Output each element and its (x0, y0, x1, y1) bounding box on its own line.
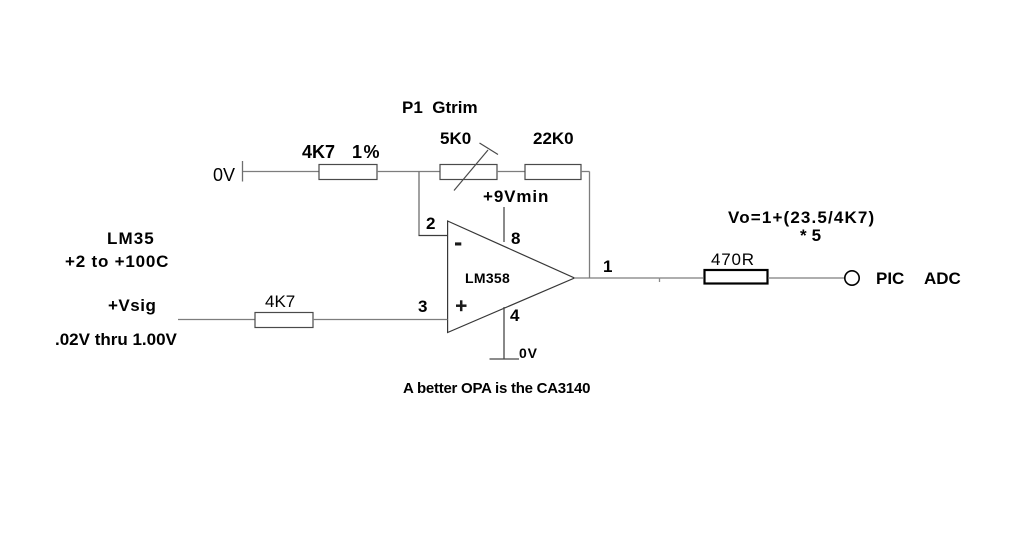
note A better OPA is the CA3140 (403, 381, 590, 396)
label ADC (924, 270, 961, 287)
label PIC ADC (876, 270, 904, 287)
pin number 8 (511, 230, 520, 247)
label LM358 inside op-amp (465, 271, 510, 285)
node 0V input terminal tick (242, 161, 244, 182)
label +Vsig (108, 297, 156, 314)
resistor R1 4K7 1% (319, 165, 377, 180)
label P1 Gtrim (402, 99, 478, 116)
wire +Vsig input (178, 319, 255, 321)
pin number 1 (603, 258, 612, 275)
wire R3 to pin 3 (313, 319, 448, 321)
op-amp non-inverting input plus sign (456, 304, 467, 307)
wire R2 to feedback corner (581, 171, 590, 173)
label 4K7 1% for R1 (302, 144, 335, 161)
potentiometer P1 5K0 body (440, 165, 497, 180)
pin number 3 (418, 298, 427, 315)
resistor R4 470R (705, 270, 768, 284)
label LM35 (107, 230, 155, 247)
resistor R2 22K0 (525, 165, 581, 180)
wire pin 2 horizontal (419, 235, 448, 237)
label 0V left (213, 166, 235, 184)
wire R1 to P1 (377, 171, 440, 173)
terminal circle PIC ADC (845, 271, 859, 285)
label 22K0 for R2 (533, 130, 574, 147)
label 5K0 for P1 (440, 130, 471, 147)
wire 0V to R1 (243, 171, 319, 173)
potentiometer P1 wiper diagonal (454, 150, 488, 191)
op-amp inverting input minus sign (455, 242, 461, 245)
ground tick pin 4 0V (490, 358, 520, 360)
wire output pin 1 (574, 277, 703, 279)
resistor R3 4K7 input (255, 313, 313, 328)
pin number 2 (426, 215, 435, 232)
wire pin 4 V- (503, 307, 505, 359)
label 1% tolerance for R1 (352, 144, 381, 161)
wire pin 8 V+ (503, 207, 505, 242)
potentiometer P1 wiper T-bar (480, 143, 499, 155)
wire feedback vertical to output (589, 172, 591, 279)
label Vo formula (728, 209, 875, 226)
junction tick on output wire (659, 278, 661, 283)
wire R4 to terminal (768, 277, 845, 279)
label .02V thru 1.00V (55, 331, 177, 348)
label +9Vmin pin 8 supply (483, 188, 549, 205)
label 0V pin 4 (519, 346, 538, 360)
label 4K7 for R3 (265, 293, 295, 310)
pin number 4 (510, 307, 519, 324)
label 470R for R4 (711, 251, 755, 268)
op-amp U1 LM358 triangle (448, 221, 575, 333)
wire P1 to R2 (497, 171, 525, 173)
label +2 to +100C (65, 253, 169, 270)
label *5 (800, 227, 826, 244)
wire junction to pin 2 vertical (418, 172, 420, 236)
